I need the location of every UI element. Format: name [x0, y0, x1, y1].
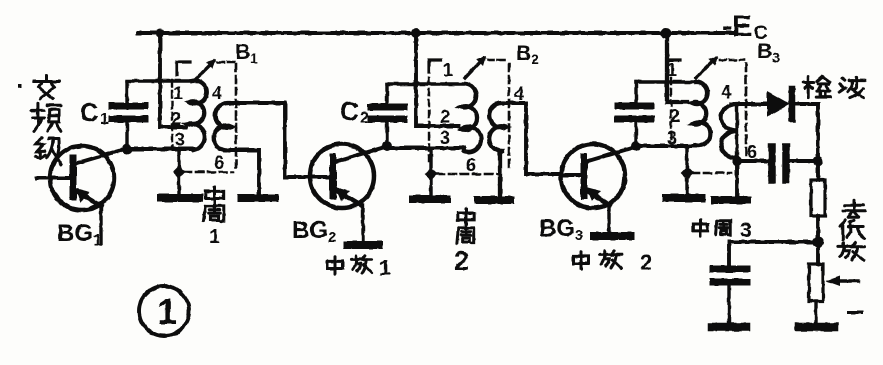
svg-text:1: 1: [173, 83, 183, 103]
svg-text:4: 4: [721, 82, 731, 102]
svg-text:2: 2: [360, 110, 369, 127]
svg-text:1: 1: [443, 60, 453, 80]
svg-text:2: 2: [454, 246, 469, 276]
svg-text:3: 3: [175, 130, 185, 150]
svg-text:6: 6: [466, 155, 476, 175]
svg-text:2: 2: [640, 250, 652, 275]
svg-text:2: 2: [531, 51, 539, 67]
svg-text:1: 1: [250, 50, 258, 66]
svg-text:1: 1: [93, 232, 102, 249]
svg-text:C: C: [80, 97, 99, 127]
svg-text:BG: BG: [57, 220, 93, 247]
svg-text:3: 3: [575, 227, 583, 244]
svg-text:1: 1: [100, 111, 109, 128]
svg-text:2: 2: [670, 106, 680, 126]
svg-text:3: 3: [740, 219, 752, 242]
svg-text:3: 3: [667, 128, 677, 148]
svg-text:B: B: [235, 41, 250, 64]
svg-text:-E: -E: [722, 10, 752, 43]
svg-text:3: 3: [440, 128, 450, 148]
svg-text:1: 1: [667, 60, 677, 80]
svg-text:1: 1: [157, 291, 177, 332]
svg-text:B: B: [516, 42, 531, 65]
svg-text:C: C: [340, 96, 359, 126]
svg-text:2: 2: [328, 229, 336, 246]
svg-text:1: 1: [209, 226, 220, 248]
svg-text:BG: BG: [539, 215, 575, 242]
svg-text:2: 2: [171, 109, 181, 129]
svg-text:1: 1: [379, 257, 391, 280]
svg-text:4: 4: [514, 84, 524, 104]
svg-text:6: 6: [214, 153, 224, 173]
svg-text:3: 3: [772, 49, 780, 65]
svg-text:4: 4: [212, 83, 222, 103]
svg-text:B: B: [757, 40, 772, 63]
svg-text:BG: BG: [292, 217, 328, 244]
svg-text:2: 2: [440, 107, 450, 127]
svg-text:6: 6: [747, 142, 757, 162]
